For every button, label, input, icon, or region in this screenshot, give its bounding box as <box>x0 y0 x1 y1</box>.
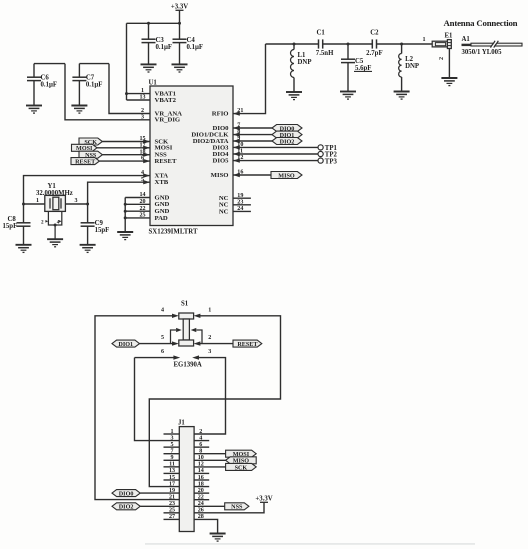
wire J1 pin6 stub <box>194 446 209 448</box>
wire NC pin24 <box>233 210 251 212</box>
connector J1 <box>179 427 194 532</box>
wire <box>401 44 403 54</box>
wire <box>179 10 181 23</box>
svg-text:3: 3 <box>141 114 144 120</box>
ground <box>394 92 410 100</box>
net tag DIO2 <box>112 503 140 510</box>
svg-text:C7: C7 <box>86 75 95 82</box>
svg-text:2.7pF: 2.7pF <box>366 50 382 57</box>
wire DIO0 to J1 pin19 <box>140 492 179 494</box>
wire PAD pin25 <box>125 217 150 219</box>
svg-text:C9: C9 <box>95 220 104 227</box>
inductor L2 DNP <box>399 54 402 78</box>
svg-text:C4: C4 <box>187 37 196 44</box>
wire SCK <box>194 466 226 468</box>
svg-text:15pF: 15pF <box>95 227 110 234</box>
wire J1 pin1 stub <box>164 433 180 435</box>
wire SCK <box>102 141 150 143</box>
svg-text:3050/1 YL005: 3050/1 YL005 <box>462 49 503 56</box>
wire RFIO <box>233 44 266 114</box>
wire <box>23 226 25 244</box>
svg-text:3: 3 <box>170 435 173 441</box>
test point TP1 <box>318 145 323 150</box>
svg-text:XTB: XTB <box>155 179 169 186</box>
wire <box>34 63 65 65</box>
ground <box>117 232 133 240</box>
svg-text:E1: E1 <box>445 33 454 40</box>
node XTA/C8/Y1 <box>22 203 25 206</box>
ground <box>141 64 157 72</box>
wire S1 pin3 to J1 pin2 <box>194 358 225 434</box>
svg-text:DNP: DNP <box>405 63 419 70</box>
wire MISO <box>194 459 226 461</box>
net tag RESET <box>233 340 262 347</box>
svg-text:0.1µF: 0.1µF <box>41 82 58 89</box>
wire ground bus <box>124 198 126 232</box>
svg-text:3: 3 <box>75 198 78 204</box>
svg-text:22: 22 <box>139 206 145 212</box>
wire J1 pin25 stub <box>164 512 180 514</box>
wire <box>179 23 181 39</box>
svg-text:A1: A1 <box>462 36 471 43</box>
node L2 <box>400 43 403 46</box>
wire <box>79 63 109 65</box>
svg-text:1: 1 <box>141 88 144 94</box>
svg-text:RFIO: RFIO <box>212 111 229 118</box>
net tag MISO <box>271 172 302 179</box>
svg-text:7.5nH: 7.5nH <box>316 50 334 57</box>
svg-text:S1: S1 <box>181 301 189 308</box>
net tag DIO1 <box>112 340 140 347</box>
svg-text:DNP: DNP <box>298 59 312 66</box>
wire NC pin19 <box>233 197 251 199</box>
svg-text:21: 21 <box>169 495 175 501</box>
wire J1 pin5 stub <box>164 446 180 448</box>
wire DIO1 <box>233 134 272 136</box>
svg-text:32.0000MHz: 32.0000MHz <box>36 190 73 197</box>
svg-text:20: 20 <box>139 199 145 205</box>
svg-text:C8: C8 <box>8 216 17 223</box>
ground <box>80 245 96 253</box>
wire XTB <box>88 182 150 204</box>
ground <box>340 92 356 100</box>
ground <box>16 245 32 253</box>
net tag MOSI <box>226 450 257 457</box>
svg-text:C3: C3 <box>156 37 165 44</box>
wire J1 pin18 stub <box>194 486 209 488</box>
node C3 top junction <box>147 22 150 25</box>
capacitor C3 <box>142 39 156 42</box>
wire DIO3 <box>233 146 318 148</box>
capacitor C5 <box>341 59 355 62</box>
svg-text:VBAT2: VBAT2 <box>155 97 177 104</box>
svg-text:VR_DIG: VR_DIG <box>155 117 181 124</box>
capacitor C8 <box>17 223 31 226</box>
wire DIO1 to S1 pin5 <box>140 343 173 345</box>
capacitor C6 <box>27 77 41 80</box>
wire S1 pin2 to RESET <box>200 343 233 345</box>
wire NSS <box>102 154 150 156</box>
capacitor C9 <box>81 223 95 226</box>
wire S1 pin1 to J1 pin17 <box>149 316 280 487</box>
test point TP3 <box>318 158 323 163</box>
svg-text:L1: L1 <box>298 52 307 59</box>
wire <box>87 204 89 223</box>
wire <box>127 22 180 24</box>
svg-text:C5: C5 <box>355 58 364 65</box>
wire DIO2 to J1 pin23 <box>140 505 179 507</box>
wire <box>65 203 87 205</box>
wire NSS <box>194 505 225 507</box>
svg-text:17: 17 <box>169 481 175 487</box>
svg-text:1: 1 <box>423 37 426 43</box>
svg-text:SX1239IMLTRT: SX1239IMLTRT <box>149 229 198 236</box>
svg-text:C2: C2 <box>370 30 379 37</box>
wire RF rail <box>266 43 319 45</box>
net tag MOSI <box>72 144 98 151</box>
svg-text:+3.3V: +3.3V <box>171 4 188 11</box>
svg-text:DIO5: DIO5 <box>213 158 230 165</box>
svg-text:Antenna Connection: Antenna Connection <box>444 18 518 28</box>
wire NC pin23 <box>233 204 251 206</box>
svg-text:2: 2 <box>41 220 44 226</box>
ground <box>441 78 457 86</box>
node C4 top junction <box>178 22 181 25</box>
wire <box>401 77 403 91</box>
svg-text:Y1: Y1 <box>48 183 57 190</box>
wire MISO <box>233 174 271 176</box>
svg-text:13: 13 <box>139 95 145 101</box>
node <box>124 203 127 206</box>
wire GND pin14 <box>125 197 150 199</box>
node XTB/C9/Y1 <box>86 203 89 206</box>
wire J1 pin16 stub <box>194 479 209 481</box>
wire S1 pin6 to J1 pin3 <box>135 358 180 441</box>
wire S1 pin6 <box>135 357 175 359</box>
svg-text:1: 1 <box>208 307 211 313</box>
svg-text:C1: C1 <box>316 30 325 37</box>
svg-text:MISO: MISO <box>278 173 295 179</box>
wire J1 pin13 stub <box>164 472 180 474</box>
svg-text:NSS: NSS <box>231 505 243 511</box>
wire J1 pin7 stub <box>164 453 180 455</box>
wire XTA <box>24 176 151 204</box>
svg-text:RESET: RESET <box>75 160 95 166</box>
ground <box>172 64 188 72</box>
node <box>124 210 127 213</box>
wire <box>148 43 150 65</box>
capacitor C4 <box>173 39 187 42</box>
wire <box>347 63 349 92</box>
wire J1 pin9 stub <box>164 459 180 461</box>
wire MOSI <box>194 453 226 455</box>
net tag MISO <box>226 457 257 464</box>
svg-text:6: 6 <box>161 349 164 355</box>
wire <box>24 203 45 205</box>
svg-text:SCK: SCK <box>235 465 248 471</box>
svg-text:C6: C6 <box>41 75 50 82</box>
capacitor C1 <box>319 39 323 48</box>
wire J1 pin4 stub <box>194 440 209 442</box>
wire DIO4 <box>233 153 318 155</box>
wire <box>293 44 295 50</box>
svg-text:5.6pF: 5.6pF <box>355 65 371 72</box>
net tag RESET <box>71 158 99 165</box>
net tag DIO0 <box>272 125 302 132</box>
wire <box>23 204 25 223</box>
wire J1 pin20 stub <box>194 492 209 494</box>
ground <box>71 106 87 114</box>
wire <box>87 226 89 244</box>
ground <box>210 534 226 542</box>
svg-text:5: 5 <box>161 335 164 341</box>
wire <box>78 64 80 78</box>
node C5 <box>347 43 350 46</box>
wire RF rail <box>377 43 433 45</box>
crystal case ground pins 2 4 <box>48 212 61 225</box>
svg-text:NC: NC <box>219 208 229 215</box>
wire <box>127 93 151 95</box>
wire J1 pin28 to ground <box>194 519 218 533</box>
wire <box>126 23 128 100</box>
wire VR_ANA <box>109 64 150 114</box>
svg-text:1: 1 <box>36 198 39 204</box>
node <box>124 216 127 219</box>
wire DIO0 <box>233 127 272 129</box>
wire E1 pin2 <box>448 49 450 78</box>
svg-text:PAD: PAD <box>155 215 168 222</box>
svg-text:3: 3 <box>208 349 211 355</box>
svg-text:0.1µF: 0.1µF <box>86 82 103 89</box>
svg-text:14: 14 <box>139 192 145 198</box>
wire J1 pin14 stub <box>194 472 209 474</box>
wire J1 pin11 stub <box>164 466 180 468</box>
wire <box>33 64 35 78</box>
wire DIO5 <box>233 160 318 162</box>
inductor L1 DNP <box>291 50 295 78</box>
capacitor C2 <box>372 39 376 48</box>
wire <box>127 99 151 101</box>
svg-text:2: 2 <box>199 429 202 435</box>
svg-text:DIO2: DIO2 <box>119 505 134 511</box>
ground <box>286 92 302 100</box>
svg-text:25: 25 <box>139 213 145 219</box>
wire S1 pin4 to J1 pin21 <box>95 316 179 500</box>
net tag SCK <box>226 463 257 470</box>
svg-text:TP3: TP3 <box>325 158 338 165</box>
wire <box>179 43 181 65</box>
wire DIO2 <box>233 140 272 142</box>
wire RF rail <box>323 43 372 45</box>
net tag NSS <box>225 503 249 510</box>
svg-text:RESET: RESET <box>155 158 177 165</box>
scan edge bottom <box>145 543 475 544</box>
ground <box>26 106 42 114</box>
svg-text:DIO2: DIO2 <box>280 139 295 145</box>
wire GND pin20 <box>125 203 150 205</box>
svg-text:4: 4 <box>161 307 164 313</box>
IC U1 SX1239IMLTRT <box>150 86 233 226</box>
svg-text:+3.3V: +3.3V <box>255 496 272 503</box>
wire GND pin22 <box>125 210 150 212</box>
wire <box>33 81 35 106</box>
wire J1 pin22 stub <box>194 499 209 501</box>
svg-text:15pF: 15pF <box>3 223 18 230</box>
node L1 <box>293 43 296 46</box>
svg-text:L2: L2 <box>405 56 414 63</box>
wire <box>293 78 295 92</box>
svg-text:2: 2 <box>439 57 445 60</box>
node VBAT junction <box>125 92 128 95</box>
wire RESET <box>99 160 150 162</box>
svg-text:EG1390A: EG1390A <box>174 362 202 369</box>
wire VR_DIG <box>65 64 150 120</box>
net tag DIO1 <box>272 131 302 138</box>
svg-text:0.1µF: 0.1µF <box>156 44 173 51</box>
wire J1 pin27 stub <box>164 518 180 520</box>
svg-text:DIO0: DIO0 <box>119 492 134 498</box>
crystal Y1 32.0000MHz <box>45 195 66 211</box>
svg-text:2: 2 <box>208 335 211 341</box>
wire J1 pin15 stub <box>164 479 180 481</box>
wire MOSI <box>97 147 150 149</box>
capacitor C7 <box>72 77 86 80</box>
svg-text:MISO: MISO <box>211 172 229 179</box>
net tag NSS <box>79 151 102 158</box>
ground <box>47 239 63 247</box>
net tag DIO0 <box>112 490 140 497</box>
wire <box>347 44 349 59</box>
svg-text:J1: J1 <box>178 420 185 427</box>
wire <box>148 23 150 39</box>
test point TP2 <box>318 151 323 156</box>
net tag DIO2 <box>272 138 302 145</box>
net tag SCK <box>79 138 102 145</box>
wire J1 pin26 to +3.3V <box>194 502 264 513</box>
svg-text:2: 2 <box>141 108 144 114</box>
svg-text:RESET: RESET <box>237 342 257 348</box>
svg-text:DIO1: DIO1 <box>118 342 133 348</box>
wire <box>78 81 80 106</box>
svg-text:U1: U1 <box>149 80 158 87</box>
svg-text:0.1µF: 0.1µF <box>187 44 204 51</box>
